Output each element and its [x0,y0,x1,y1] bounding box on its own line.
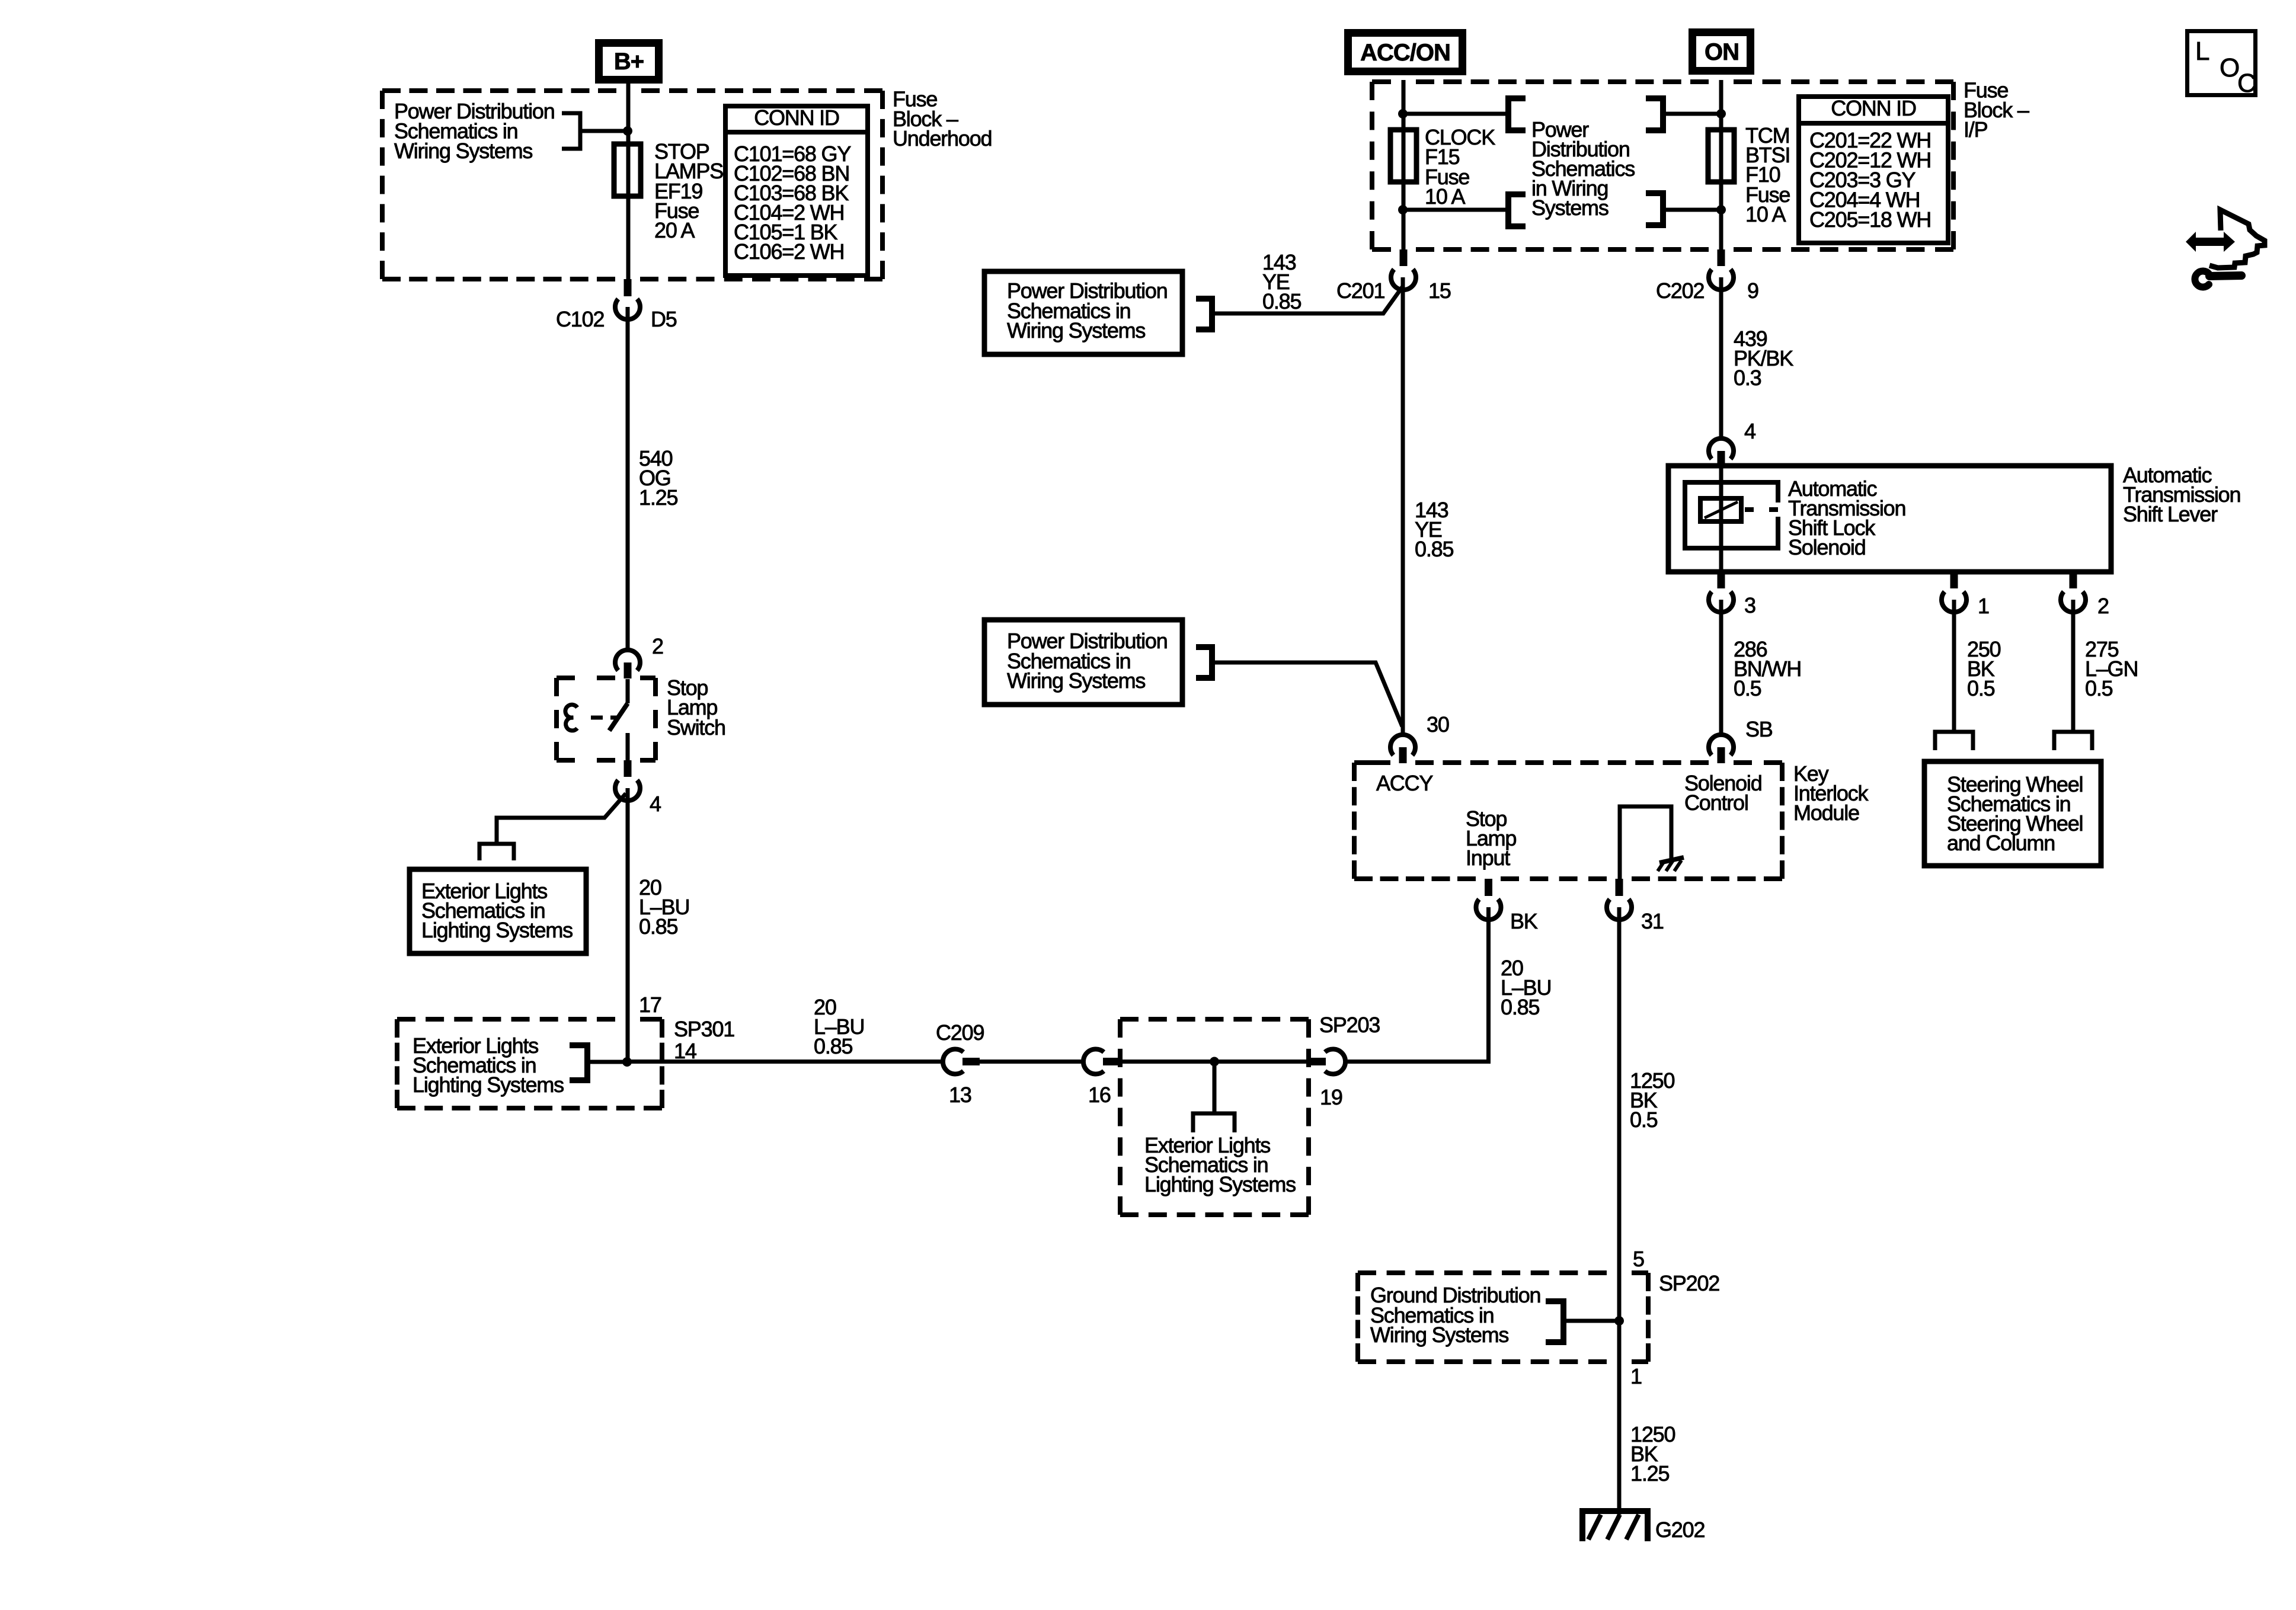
svg-text:14: 14 [674,1039,696,1063]
svg-text:C106=2 WH: C106=2 WH [734,239,844,264]
fuse F15 CLOCK 10A [1390,130,1416,182]
reference bracket upper (ACC/ON) [1508,98,1526,130]
reference bracket in SP202 box [1546,1301,1563,1342]
wire 286 BN/WH [1719,600,1723,735]
fuse EF19 STOP LAMPS 20A [614,144,641,196]
svg-text:SP203: SP203 [1319,1013,1380,1037]
node junction above CLOCK fuse [1398,109,1408,119]
connector SP203 pin 19 [1309,1058,1326,1065]
svg-text:I/P: I/P [1964,117,1988,142]
svg-text:C: C [2237,69,2256,98]
connector C102 pin D5 [624,279,632,296]
svg-text:0.85: 0.85 [1501,995,1539,1019]
svg-text:SP202: SP202 [1659,1271,1719,1295]
wire B+ to fuse block [626,81,631,279]
svg-text:15: 15 [1428,279,1451,303]
svg-text:Wiring Systems: Wiring Systems [1007,668,1145,693]
wire from reference bracket (upper ON) [1663,112,1721,116]
wire 250 BK [1952,600,1956,732]
svg-text:1: 1 [1978,594,1989,618]
svg-text:5: 5 [1633,1247,1644,1271]
stop lamp switch linkage dashes [591,716,603,720]
svg-text:0.85: 0.85 [1262,289,1301,313]
ground G202 symbol [1582,1511,1648,1541]
svg-text:Input: Input [1466,846,1510,870]
svg-text:0.5: 0.5 [1967,676,1995,700]
wire branch to exterior lights reference [497,793,626,844]
power distribution reference box (lower) [984,620,1182,705]
power symbol B+ box [599,43,659,80]
svg-text:C102: C102 [556,307,604,331]
svg-text:C205=18 WH: C205=18 WH [1809,207,1931,232]
svg-text:16: 16 [1088,1083,1111,1107]
node splice SP301 [622,1057,632,1067]
wire 439 PK/BK [1719,277,1723,438]
wrench icon [2195,271,2209,287]
key interlock module (dashed outline) [1354,763,1782,879]
svg-text:31: 31 [1641,909,1664,933]
wire 540 OG 1.25 [626,307,630,650]
connector C209 pin 13 [943,1049,964,1074]
CONN ID table (underhood) [725,106,868,276]
stop lamp switch (dashed outline) [557,678,655,760]
svg-text:SP301: SP301 [674,1017,734,1041]
reference bracket upper (ON) [1646,98,1663,130]
wire into SP203 [1120,1060,1309,1064]
connector C209 pin 16 [1083,1049,1104,1074]
svg-text:Wiring Systems: Wiring Systems [394,139,532,163]
fuse F10 TCM BTSI 10A [1708,130,1734,182]
svg-text:0.5: 0.5 [1630,1108,1658,1132]
fork symbol to exterior lights box [479,844,514,860]
svg-text:0.85: 0.85 [814,1034,852,1058]
double arrow icon [2186,232,2235,252]
svg-text:Control: Control [1684,790,1748,815]
reference bracket lower (ACC/ON) [1508,194,1526,226]
svg-text:0.85: 0.85 [1415,537,1453,561]
svg-text:2: 2 [652,634,663,658]
wire to power distribution reference (lower) [1403,208,1508,212]
svg-text:1.25: 1.25 [1630,1461,1669,1486]
node splice SP202 [1614,1316,1624,1326]
wire from reference bracket (lower ON) [1663,208,1721,212]
stop lamp switch blade [626,679,630,703]
svg-text:Solenoid: Solenoid [1788,535,1866,559]
svg-text:and Column: and Column [1947,831,2055,855]
svg-text:30: 30 [1427,712,1449,737]
svg-text:G202: G202 [1655,1518,1705,1542]
svg-text:CONN ID: CONN ID [754,105,839,130]
svg-text:Underhood: Underhood [893,126,992,151]
connector pin 4 of stop lamp switch [624,760,632,777]
svg-text:Wiring Systems: Wiring Systems [1007,318,1145,343]
automatic transmission shift lever box [1668,466,2111,572]
svg-text:17: 17 [639,993,661,1017]
connector pin SB of key interlock module [1709,735,1734,756]
shift lock solenoid coil [1719,466,1723,572]
power symbol ON box [1693,33,1751,71]
exterior lights reference box (upper) [410,869,586,953]
steering wheel reference box [1924,761,2101,866]
svg-text:C201: C201 [1336,279,1384,303]
node junction above TCM fuse [1716,109,1726,119]
connector pin 1 of shift lever [1950,572,1958,588]
fuse block - I/P (dashed outline) [1372,82,1953,249]
node junction on B+ feed [623,126,632,136]
reference bracket lower (ON) [1646,193,1663,225]
svg-text:SB: SB [1745,717,1773,741]
svg-text:Switch: Switch [667,715,725,740]
internal chassis ground symbol [1659,857,1684,863]
svg-text:Systems: Systems [1531,196,1609,220]
svg-text:2: 2 [2097,594,2109,618]
wire diagonal from power distribution reference (lower) [1212,662,1402,726]
svg-text:0.5: 0.5 [2085,676,2113,700]
power symbol ACC/ON box [1348,33,1463,72]
fork symbol to exterior lights (SP203) [1213,1062,1217,1114]
svg-text:3: 3 [1744,593,1755,617]
stop lamp switch actuator symbol [565,705,577,731]
svg-text:Lighting Systems: Lighting Systems [421,918,573,942]
wire 143 YE to key interlock [1401,277,1405,735]
connector pin 31 of key interlock module [1616,879,1623,896]
fuse block - underhood (dashed outline) [382,91,882,279]
CONN ID table (I/P) [1799,97,1948,243]
svg-text:20 A: 20 A [654,218,695,242]
svg-text:Shift Lever: Shift Lever [2123,502,2218,526]
wire ON feed [1719,80,1723,249]
svg-text:10 A: 10 A [1425,184,1465,209]
svg-text:Lighting Systems: Lighting Systems [1144,1172,1296,1196]
wire 20 L-BU from switch [626,788,630,1062]
wire 20 L-BU horizontal run [627,1060,941,1064]
wire 275 L-GN [2071,600,2076,732]
connector pin 4 of shift lock solenoid [1709,438,1734,459]
splice SP202 box (dashed outline) [1358,1273,1648,1362]
svg-text:CONN ID: CONN ID [1831,96,1916,120]
wire from SP203 to key interlock BK pin [1348,907,1489,1062]
svg-text:C202: C202 [1656,279,1704,303]
wire between C209 halves [980,1060,1081,1064]
connector pin 30 of key interlock module [1390,735,1415,756]
svg-text:4: 4 [1744,419,1755,443]
fork symbol to steering wheel box (pin 2) [2054,732,2092,750]
svg-text:C209: C209 [936,1020,984,1045]
connector pin BK of key interlock module [1485,879,1492,896]
svg-text:0.85: 0.85 [639,914,677,939]
wire to power distribution reference (upper) [1403,112,1508,116]
svg-text:Wiring Systems: Wiring Systems [1370,1323,1508,1347]
splice SP301 box (dashed outline) [397,1019,662,1108]
connector pin 2 of shift lever [2070,572,2077,588]
svg-text:13: 13 [949,1083,971,1107]
splice SP203 box (dashed outline) [1120,1019,1309,1215]
svg-text:BK: BK [1510,909,1538,933]
node splice SP203 [1210,1057,1219,1067]
svg-text:0.3: 0.3 [1734,366,1761,390]
svg-text:ACCY: ACCY [1376,771,1433,795]
svg-text:0.5: 0.5 [1734,676,1761,700]
LOC legend box [2188,31,2256,95]
svg-text:Lighting Systems: Lighting Systems [412,1073,564,1097]
svg-text:1.25: 1.25 [639,485,677,510]
svg-text:10 A: 10 A [1745,202,1786,226]
svg-text:ON: ON [1705,39,1739,65]
reference bracket (power distribution, pin30) [1196,647,1212,678]
wire 1250 BK 0.5 [1617,907,1622,1515]
wire ACC/ON feed [1402,80,1406,249]
svg-text:D5: D5 [651,307,677,331]
wire diagonal from power distribution reference (upper) [1212,286,1403,313]
svg-text:Module: Module [1793,801,1859,825]
connector C201 pin 15 [1400,249,1408,266]
reference bracket (power distribution, C201) [1196,299,1212,329]
svg-text:B+: B+ [614,49,644,75]
node junction below CLOCK fuse [1398,205,1408,215]
svg-text:4: 4 [650,792,661,816]
fork symbol to steering wheel box (pin 1) [1935,732,1973,750]
svg-text:19: 19 [1320,1085,1342,1109]
reference bracket (power distribution schematics) [562,113,580,149]
svg-text:ACC/ON: ACC/ON [1360,40,1450,66]
key interlock internal circuit to ground [1620,806,1671,879]
animal head icon [2209,210,2265,268]
wire to power distribution reference [580,129,628,133]
svg-text:L: L [2195,37,2209,66]
svg-text:1: 1 [1630,1364,1642,1388]
connector pin 2 of stop lamp switch [615,650,640,671]
power distribution reference box (upper) [984,271,1182,354]
reference bracket in SP301 box [570,1045,587,1080]
connector C202 pin 9 [1718,249,1725,266]
node junction below TCM fuse [1716,205,1726,215]
connector pin 3 of shift lever [1718,572,1725,588]
svg-text:9: 9 [1747,279,1758,303]
